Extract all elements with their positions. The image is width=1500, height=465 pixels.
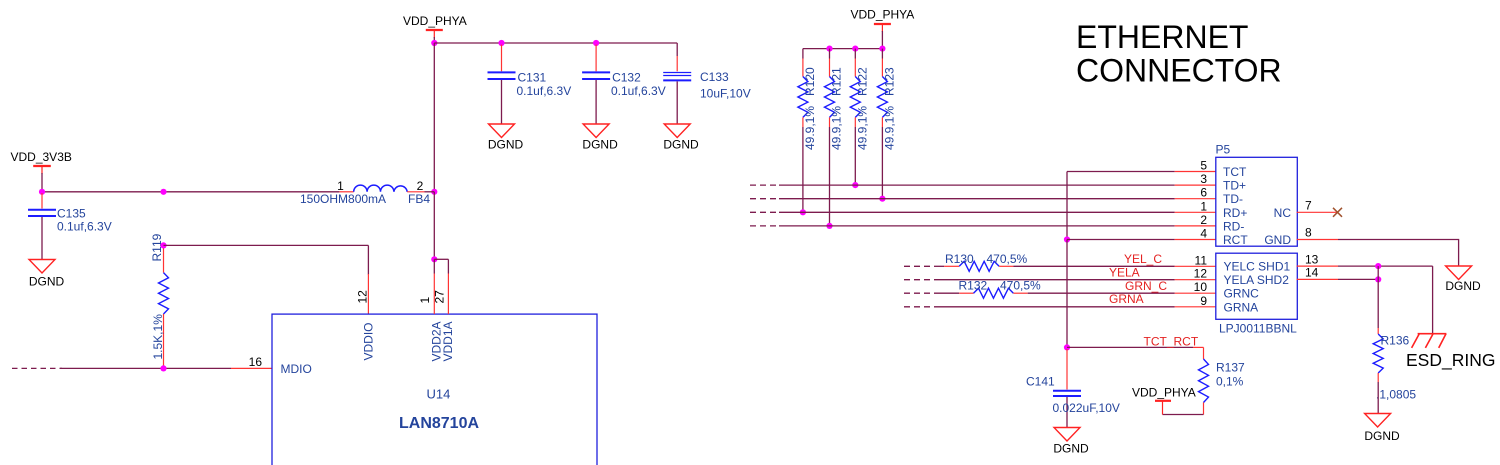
wire RD- dashed: [750, 225, 779, 227]
svg-text:2: 2: [1200, 213, 1207, 227]
svg-text:49.9,1%: 49.9,1%: [856, 106, 870, 150]
svg-text:YELC SHD1: YELC SHD1: [1224, 260, 1291, 274]
svg-text:R132: R132: [959, 279, 988, 293]
svg-text:C133: C133: [700, 70, 729, 84]
resistor R137: [1193, 347, 1245, 414]
svg-text:RD+: RD+: [1223, 206, 1247, 220]
resistor R130: [944, 252, 1027, 271]
junction VDD_PHYA rail: [431, 40, 437, 46]
power symbol VDD_PHYA right: [851, 8, 915, 33]
svg-text:16: 16: [249, 355, 263, 369]
wire SHD1: [1338, 265, 1433, 267]
wire RD+ dashed: [750, 211, 779, 213]
svg-text:0.022uF,10V: 0.022uF,10V: [1053, 401, 1120, 415]
junction R119 top tap: [160, 242, 166, 248]
capacitor C133: [663, 43, 751, 125]
junction SHD1: [1375, 263, 1381, 269]
wire top rail: [434, 42, 677, 44]
pin stub RD+: [1175, 211, 1216, 213]
pin stub TCT: [1175, 171, 1216, 173]
svg-text:U14: U14: [427, 387, 451, 402]
svg-text:TCT: TCT: [1223, 165, 1247, 179]
svg-text:0.1uf,6.3V: 0.1uf,6.3V: [611, 84, 666, 98]
svg-text:GND: GND: [1264, 233, 1291, 247]
svg-text:R130: R130: [945, 252, 974, 266]
svg-text:DGND: DGND: [488, 138, 524, 152]
wire RCT: [1067, 239, 1175, 241]
wire GRNA dashed: [904, 306, 932, 308]
svg-text:13: 13: [1305, 252, 1319, 266]
svg-text:0.1uf,6.3V: 0.1uf,6.3V: [57, 220, 112, 234]
svg-text:R122: R122: [856, 67, 870, 96]
svg-text:FB4: FB4: [408, 192, 430, 206]
svg-text:8: 8: [1305, 226, 1312, 240]
power symbol VDD_PHYA bottom: [1132, 386, 1196, 415]
svg-text:C132: C132: [612, 71, 641, 85]
wire YEL_C right: [1013, 265, 1174, 267]
wire GRNA: [934, 306, 1175, 308]
svg-text:CONNECTOR: CONNECTOR: [1076, 53, 1282, 89]
svg-text:YEL_C: YEL_C: [1124, 252, 1162, 266]
junction SHD2: [1375, 276, 1381, 282]
svg-text:470,5%: 470,5%: [987, 252, 1028, 266]
svg-text:DGND: DGND: [663, 138, 699, 152]
wire TCT horizontal: [1067, 171, 1175, 173]
pin 27 VDD1A stub: [447, 274, 449, 315]
wire TCT vertical: [1066, 172, 1068, 240]
wire power jog: [434, 258, 448, 260]
no-connect X: [1333, 208, 1342, 217]
svg-text:YELA SHD2: YELA SHD2: [1224, 273, 1290, 287]
wire 3V3 rail: [42, 191, 339, 193]
svg-text:49.9,1%: 49.9,1%: [803, 106, 817, 150]
capacitor C132: [582, 45, 666, 125]
wire YEL_C left: [934, 265, 944, 267]
svg-text:LPJ0011BBNL: LPJ0011BBNL: [1219, 322, 1297, 336]
junction MDIO R119: [160, 365, 166, 371]
wire GRN_C left: [934, 292, 959, 294]
svg-text:150OHM800mA: 150OHM800mA: [300, 192, 386, 206]
pin stub RD-: [1175, 225, 1216, 227]
svg-text:3: 3: [1200, 172, 1207, 186]
svg-text:5: 5: [1200, 159, 1207, 173]
junction rail R121: [826, 46, 832, 52]
pin stub 12c: [1175, 279, 1216, 281]
svg-text:470,5%: 470,5%: [1000, 279, 1041, 293]
svg-text:LAN8710A: LAN8710A: [399, 415, 479, 432]
pin stub 10: [1175, 292, 1216, 294]
svg-text:VDDIO: VDDIO: [362, 322, 376, 360]
wire VDDIO vertical: [367, 245, 369, 274]
power symbol VDD_3V3B: [11, 150, 72, 174]
wire YELA: [934, 279, 1175, 281]
svg-text:VDD_3V3B: VDD_3V3B: [11, 150, 72, 164]
power symbol VDD_PHYA left: [403, 14, 467, 38]
svg-text:1: 1: [1200, 199, 1207, 213]
svg-text:C135: C135: [57, 207, 86, 221]
svg-text:TCT_RCT: TCT_RCT: [1144, 335, 1199, 349]
ground DGND C135: [29, 260, 65, 289]
ground DGND P5: [1445, 266, 1481, 293]
resistor R121: [825, 49, 844, 226]
svg-text:10: 10: [1194, 280, 1208, 294]
junction 3V3 at R119: [160, 189, 166, 195]
junction rail R122: [852, 46, 858, 52]
svg-text:NC: NC: [1274, 206, 1292, 220]
pin stub 11: [1175, 265, 1216, 267]
svg-text:6: 6: [1200, 186, 1207, 200]
chassis symbol ESD_RING: [1412, 334, 1447, 348]
svg-text:TD+: TD+: [1223, 179, 1246, 193]
pin 7 NC stub: [1297, 211, 1338, 213]
pin stub TD-: [1175, 198, 1216, 200]
wire VDD_3V3B stem: [41, 173, 43, 192]
junction TCT_RCT tap: [1064, 344, 1070, 350]
ground DGND C131: [488, 124, 524, 152]
svg-text:R120: R120: [803, 67, 817, 96]
svg-text:GRNC: GRNC: [1224, 287, 1260, 301]
svg-text:R136: R136: [1381, 334, 1410, 348]
pin 16 MDIO stub: [231, 367, 272, 369]
wire shield vertical: [1377, 266, 1379, 328]
svg-text:TD-: TD-: [1223, 192, 1243, 206]
ground DGND C141: [1053, 428, 1089, 456]
junction R123 bus: [879, 196, 885, 202]
resistor R119: [150, 233, 169, 368]
svg-text:9: 9: [1200, 294, 1207, 308]
svg-text:12: 12: [1194, 267, 1208, 281]
wire main vertical VDD_PHYA: [433, 43, 435, 192]
junction power split: [431, 256, 437, 262]
op-amp U14 box: [272, 314, 597, 465]
junction TCT RCT: [1064, 236, 1070, 242]
ground DGND C132: [582, 124, 618, 152]
svg-text:0,1%: 0,1%: [1216, 375, 1244, 389]
wire TD+: [779, 184, 1175, 186]
wire R137 to VDD_PHYA: [1163, 414, 1204, 416]
wire RD-: [779, 225, 1175, 227]
svg-text:4: 4: [1200, 227, 1207, 241]
svg-text:C141: C141: [1026, 375, 1055, 389]
svg-text:.1,0805: .1,0805: [1376, 388, 1416, 402]
wire VDD_PHYA stem left: [433, 37, 435, 43]
resistor R132: [959, 279, 1042, 299]
svg-text:VDD_PHYA: VDD_PHYA: [851, 8, 915, 22]
resistor R120: [798, 49, 817, 213]
wire MDIO dashed: [12, 367, 62, 369]
wire GND to DGND: [1338, 240, 1459, 267]
svg-text:49.9,1%: 49.9,1%: [830, 106, 844, 150]
wire YELA dashed: [904, 279, 932, 281]
svg-text:R123: R123: [883, 67, 897, 96]
svg-text:DGND: DGND: [1364, 429, 1400, 443]
svg-text:MDIO: MDIO: [281, 362, 312, 376]
resistor R123: [877, 49, 896, 199]
wire pin27 drop: [447, 259, 449, 273]
wire vertical to U14 power: [433, 192, 435, 259]
junction rail R123: [879, 46, 885, 52]
wire TCT_RCT vertical: [1066, 240, 1068, 348]
junction R120 bus: [800, 209, 806, 215]
wire pin1 drop: [433, 259, 435, 273]
svg-text:DGND: DGND: [1053, 442, 1089, 456]
resistor R136: [1373, 328, 1416, 402]
svg-text:VDD_PHYA: VDD_PHYA: [403, 14, 467, 28]
svg-text:0.1uf,6.3V: 0.1uf,6.3V: [517, 84, 572, 98]
svg-text:49.9,1%: 49.9,1%: [883, 106, 897, 150]
wire VDDIO horizontal: [164, 244, 369, 246]
connector P5 lower box: [1216, 253, 1298, 319]
junction FB4 pin2: [431, 189, 437, 195]
wire SHD2: [1338, 278, 1378, 280]
svg-text:ESD_RING: ESD_RING: [1406, 350, 1495, 371]
ground DGND R136: [1364, 414, 1400, 444]
svg-text:11: 11: [1195, 253, 1208, 267]
capacitor C135: [28, 193, 112, 260]
junction rail C132: [593, 40, 599, 46]
pin 8 GND stub: [1297, 239, 1338, 241]
svg-text:1: 1: [418, 297, 432, 304]
svg-text:GRN_C: GRN_C: [1125, 279, 1167, 293]
pin stub RCT: [1175, 239, 1216, 241]
capacitor C131: [488, 45, 572, 125]
capacitor C141: [1026, 349, 1120, 428]
junction R122 bus: [852, 182, 858, 188]
svg-text:DGND: DGND: [582, 138, 618, 152]
junction 3V3 at C135: [39, 189, 45, 195]
pin stub TD+: [1175, 184, 1216, 186]
svg-text:VDD1A: VDD1A: [441, 321, 455, 361]
pin stub 9: [1175, 306, 1216, 308]
svg-text:12: 12: [356, 290, 370, 304]
wire ESD vertical: [1432, 266, 1434, 333]
svg-text:7: 7: [1305, 198, 1312, 212]
svg-text:1.5K,1%: 1.5K,1%: [151, 314, 165, 360]
wire RD+: [779, 211, 1175, 213]
svg-text:GRNA: GRNA: [1224, 300, 1259, 314]
svg-text:14: 14: [1305, 265, 1319, 279]
wire VDD_PHYA stem right: [881, 31, 883, 49]
svg-text:DGND: DGND: [29, 274, 65, 288]
wire TCT_RCT: [1067, 346, 1193, 348]
svg-text:RCT: RCT: [1223, 233, 1248, 247]
pin 14 stub: [1297, 278, 1338, 280]
wire YEL_C dashed: [904, 265, 932, 267]
wire R136 to ground: [1377, 382, 1379, 414]
svg-text:YELA: YELA: [1109, 265, 1140, 279]
svg-text:R137: R137: [1216, 361, 1245, 375]
junction rail C131: [498, 40, 504, 46]
svg-text:P5: P5: [1216, 143, 1231, 157]
svg-text:27: 27: [433, 290, 447, 304]
wire MDIO: [60, 367, 231, 369]
ground DGND C133: [663, 124, 699, 152]
connector P5 upper box: [1216, 157, 1298, 246]
wire FB4 to junction: [425, 191, 435, 193]
svg-text:ETHERNET: ETHERNET: [1076, 19, 1248, 55]
wire GRN_C right: [1028, 292, 1175, 294]
svg-text:RD-: RD-: [1223, 219, 1244, 233]
pin 1 VDD2A stub: [433, 274, 435, 315]
svg-text:R121: R121: [830, 67, 844, 96]
pin 12 VDDIO stub: [367, 274, 369, 314]
wire TD+ dashed: [750, 184, 779, 186]
junction R121 bus: [826, 223, 832, 229]
svg-text:10uF,10V: 10uF,10V: [700, 87, 751, 101]
svg-text:C131: C131: [518, 71, 547, 85]
inductor FB4: [300, 179, 430, 206]
wire GRN_C dashed: [904, 292, 932, 294]
pin 13 stub: [1297, 265, 1338, 267]
resistor R122: [850, 49, 869, 186]
svg-text:VDD_PHYA: VDD_PHYA: [1132, 386, 1196, 400]
svg-text:GRNA: GRNA: [1109, 292, 1144, 306]
svg-text:DGND: DGND: [1445, 279, 1481, 293]
wire TD- dashed: [750, 198, 779, 200]
wire TD-: [779, 198, 1175, 200]
wire pullup rail: [803, 48, 883, 50]
